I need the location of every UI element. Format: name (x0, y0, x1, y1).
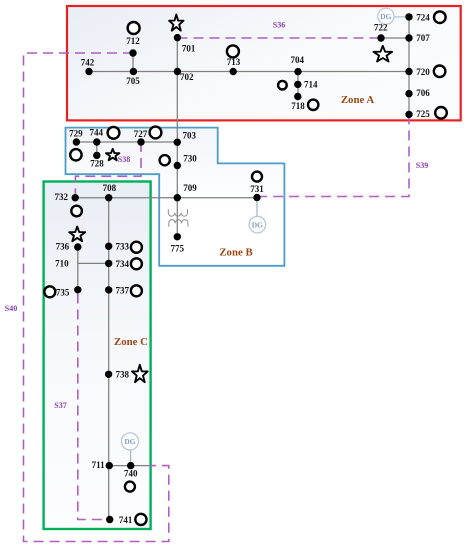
star at 738 (132, 365, 148, 382)
svg-text:708: 708 (103, 183, 117, 193)
switch S38 dashed tie 727-732 (75, 142, 141, 198)
Zone C boundary box (44, 182, 151, 530)
star at 722 (374, 46, 393, 62)
wire DG-724 link (394, 16, 409, 18)
star at 701 (169, 15, 183, 31)
Zone A boundary box (67, 6, 461, 120)
load circle at 735 (44, 286, 55, 297)
svg-text:742: 742 (81, 57, 95, 67)
wire 704-714-718 stub (297, 72, 299, 97)
svg-text:736: 736 (56, 242, 70, 252)
wire 701-702-703-730-709-775 main vertical (176, 38, 178, 237)
NODE DOTS (72, 13, 413, 523)
svg-text:705: 705 (126, 76, 140, 86)
load circle at 737 (131, 285, 142, 296)
load circle at 712 (128, 22, 140, 34)
node 708 (105, 194, 112, 201)
node 701 (174, 34, 181, 41)
node 727 (137, 138, 144, 145)
load circle at 720 (434, 66, 446, 78)
node 738 (105, 371, 112, 378)
node 704 (294, 68, 301, 75)
svg-text:714: 714 (304, 80, 318, 90)
node 713 (230, 68, 237, 75)
svg-text:S39: S39 (416, 161, 428, 170)
wire 729-744-727-703 (76, 141, 177, 143)
node 702 (174, 68, 181, 75)
node 703 (174, 139, 181, 146)
svg-text:Zone A: Zone A (341, 94, 375, 106)
node 725 (405, 111, 412, 118)
node 734 (105, 260, 112, 267)
DG unit at 731 (249, 216, 266, 233)
load circle at 732 (71, 206, 82, 217)
svg-text:713: 713 (227, 57, 241, 67)
svg-text:729: 729 (69, 128, 83, 138)
svg-text:706: 706 (416, 88, 430, 98)
wire 708-733-734-737-738-711-741 Zone C vertical (108, 198, 110, 520)
svg-text:702: 702 (180, 72, 194, 82)
node 736 (74, 243, 81, 250)
switch S40 dashed tie 705stub-740 (24, 53, 169, 542)
svg-text:731: 731 (250, 184, 264, 194)
node 722 (377, 34, 384, 41)
Zone B boundary polygon (66, 128, 285, 266)
node 730 (174, 162, 181, 169)
svg-text:S36: S36 (273, 21, 285, 30)
svg-text:703: 703 (182, 131, 196, 141)
node 718 (294, 93, 301, 100)
svg-text:701: 701 (182, 44, 196, 54)
star at 736 (69, 227, 85, 242)
svg-text:730: 730 (183, 154, 197, 164)
svg-text:740: 740 (124, 469, 138, 479)
svg-text:722: 722 (374, 23, 388, 33)
switch S36 dashed tie 701-722 (178, 37, 382, 39)
node 733 (105, 243, 112, 250)
SWITCH LABELS (5, 21, 428, 411)
node 740 (127, 462, 134, 469)
svg-text:727: 727 (134, 129, 148, 139)
load circle at 718 (308, 100, 318, 110)
node 705 (130, 68, 137, 75)
LOAD CIRCLES (44, 11, 447, 525)
wire 712 stub to 705 (132, 53, 134, 72)
load circle at 744 (108, 127, 120, 139)
svg-text:S40: S40 (5, 304, 17, 313)
node 732 (72, 194, 79, 201)
svg-text:707: 707 (416, 33, 430, 43)
node 729 (73, 138, 80, 145)
svg-text:710: 710 (55, 258, 69, 268)
load circle at 741 (135, 514, 146, 525)
wire 742-705-702-713-704-720 main Zone A horizontal (89, 71, 409, 73)
wire 732-708-709-731 main horizontal (75, 197, 257, 199)
node 712 tap (129, 49, 136, 56)
svg-text:712: 712 (126, 36, 140, 46)
svg-text:741: 741 (119, 515, 133, 525)
node 714 (294, 81, 301, 88)
node 728 (93, 152, 100, 159)
svg-text:709: 709 (183, 183, 197, 193)
node 775 (174, 233, 181, 240)
wire right bus 724-707-720-706-725 (408, 17, 410, 115)
load circle at 730 (160, 155, 170, 165)
load circle at 725 (435, 107, 447, 119)
load circle at 734 (131, 258, 142, 269)
load circle at 714 (278, 81, 287, 90)
svg-text:725: 725 (416, 109, 430, 119)
switch S39 dashed tie 725-731 (260, 114, 409, 196)
node 706 (405, 90, 412, 97)
STARS (generation units) (69, 15, 392, 383)
load circle at 733 (131, 242, 142, 253)
node 731 (253, 194, 260, 201)
wire 744-728 stub (96, 142, 98, 155)
svg-text:704: 704 (290, 55, 304, 65)
svg-text:DG: DG (380, 12, 391, 21)
DG unit at 740 (122, 433, 139, 450)
load circle at 740 (125, 482, 135, 492)
node 720 (405, 68, 412, 75)
transformer XFM-1 709-775 (168, 209, 188, 226)
svg-text:738: 738 (115, 369, 129, 379)
wire 711-740 (109, 465, 150, 467)
svg-text:S37: S37 (54, 401, 66, 410)
svg-text:DG: DG (252, 220, 263, 229)
svg-text:735: 735 (56, 288, 70, 298)
switch S37 dashed tie 735-741 (78, 294, 110, 520)
load circle at 727 (150, 127, 162, 139)
node 707 (405, 34, 412, 41)
load circle at 729 (70, 149, 81, 160)
svg-text:DG: DG (124, 437, 135, 446)
svg-text:Zone B: Zone B (219, 247, 252, 259)
star at 728 (S38) (106, 149, 119, 161)
wire 731 to DG (256, 198, 258, 217)
load circle at 731 (252, 172, 262, 182)
DG unit at 724 (378, 8, 394, 24)
node 709 (174, 194, 181, 201)
svg-text:732: 732 (55, 192, 69, 202)
ZONE LABELS (114, 94, 374, 348)
svg-text:724: 724 (416, 13, 430, 23)
node 724 (405, 13, 412, 20)
svg-text:718: 718 (291, 101, 305, 111)
svg-text:720: 720 (416, 67, 430, 77)
svg-text:711: 711 (92, 460, 106, 470)
svg-text:S38: S38 (118, 155, 130, 164)
svg-text:775: 775 (170, 244, 184, 254)
svg-text:744: 744 (89, 128, 103, 138)
node 741 (106, 516, 113, 523)
svg-text:737: 737 (116, 286, 130, 296)
load circle at 713 (227, 45, 239, 57)
load circle at 724 (434, 11, 446, 23)
wire 722-707 (381, 37, 409, 39)
node 737 (105, 286, 112, 293)
wire 740 to DG (130, 450, 132, 466)
node 744 (93, 138, 100, 145)
wire 736-710-735 left branch (77, 247, 79, 290)
svg-text:Zone C: Zone C (114, 336, 148, 348)
svg-text:733: 733 (116, 242, 130, 252)
node 711 (106, 462, 113, 469)
svg-text:734: 734 (116, 259, 130, 269)
node 735 (74, 286, 81, 293)
svg-text:728: 728 (90, 159, 104, 169)
wire 710-734 horizontal (78, 262, 109, 264)
node 742 (85, 68, 92, 75)
NODE LABELS (55, 13, 431, 525)
